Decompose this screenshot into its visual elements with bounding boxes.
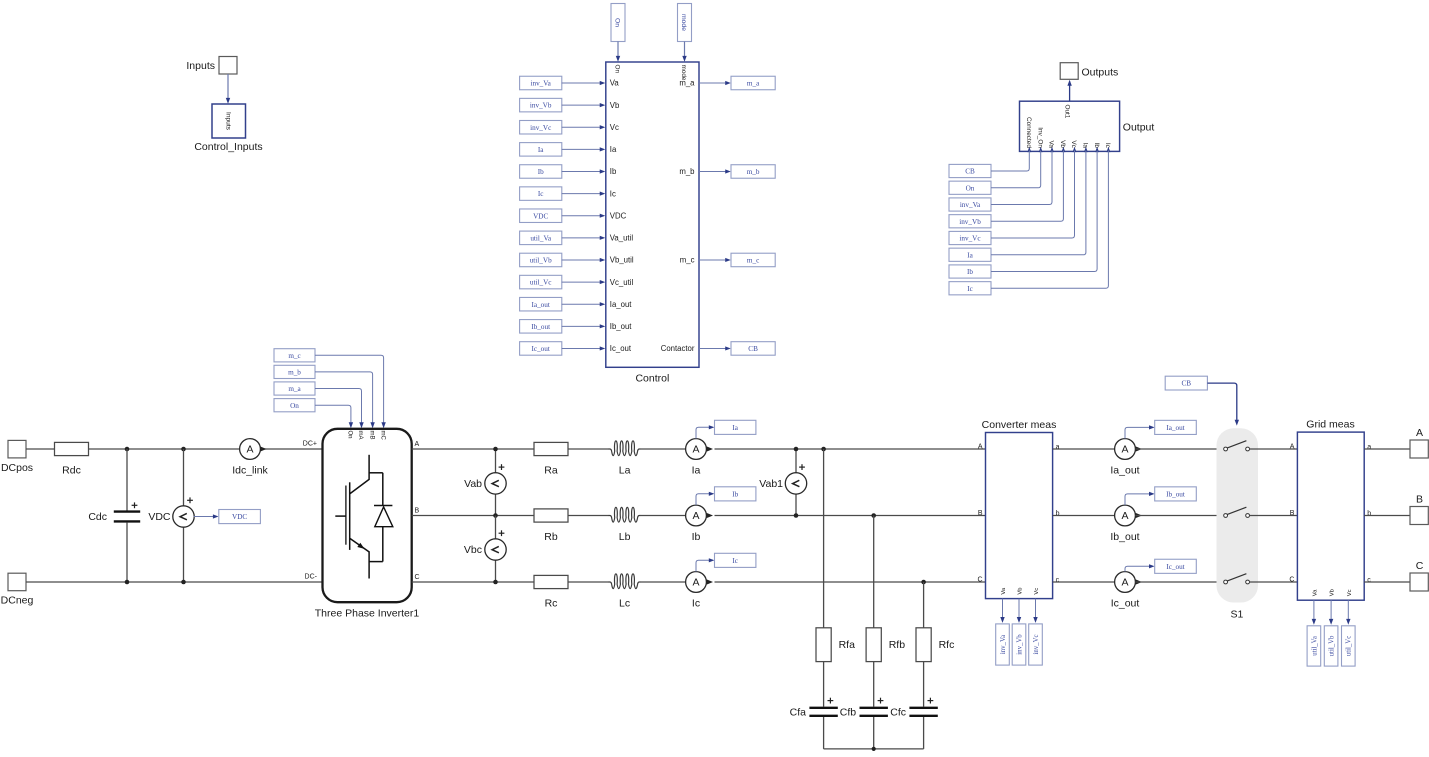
svg-text:VDC: VDC: [232, 513, 247, 521]
svg-text:m_a: m_a: [747, 80, 760, 88]
label B port inverter: [415, 507, 420, 514]
tag On into Output: [949, 150, 1041, 194]
tag m_c into inverter: [274, 349, 386, 429]
svg-text:b: b: [1367, 511, 1371, 518]
svg-text:Ic_out: Ic_out: [1111, 598, 1140, 610]
tag Ib into Control: [520, 165, 606, 179]
wire rail A inverter to Converter meas: [412, 448, 986, 450]
svg-text:A: A: [415, 441, 420, 448]
svg-text:Ia_out: Ia_out: [1110, 465, 1139, 477]
label DC-: [305, 574, 318, 581]
tag util_Vb from Grid meas: [1324, 600, 1338, 666]
junction filter neutral: [872, 747, 876, 751]
tag Ic_out measurement: [1125, 559, 1196, 573]
svg-text:Three Phase Inverter1: Three Phase Inverter1: [315, 608, 420, 620]
svg-text:On: On: [614, 65, 621, 74]
resistor Ra: [534, 442, 568, 476]
wire Grid meas to port A: [1364, 448, 1410, 450]
svg-text:m_c: m_c: [680, 256, 695, 265]
subsystem Output: [1020, 101, 1155, 152]
svg-text:inv_Va: inv_Va: [531, 80, 552, 88]
svg-text:m_a: m_a: [679, 79, 695, 88]
svg-text:DCpos: DCpos: [1, 462, 33, 474]
wire Inputs to Control_Inputs: [226, 74, 230, 104]
breaker S1: [1217, 428, 1259, 620]
svg-text:VDC: VDC: [148, 511, 171, 523]
wire S1 to Grid meas C: [1250, 581, 1298, 583]
svg-text:Inputs: Inputs: [186, 60, 215, 72]
svg-text:inv_Vb: inv_Vb: [959, 218, 981, 226]
svg-text:A: A: [1290, 443, 1295, 450]
svg-text:Vb: Vb: [1059, 140, 1066, 148]
wire S1 to Grid meas A: [1250, 448, 1298, 450]
tag inv_Va into Output: [949, 150, 1052, 211]
svg-text:A: A: [692, 510, 699, 522]
wire Ia_out to S1: [1135, 448, 1223, 450]
svg-text:Connected: Connected: [1025, 117, 1032, 148]
svg-text:B: B: [1290, 510, 1295, 517]
tag Ic into Output: [949, 150, 1108, 294]
junction VDC bottom: [181, 580, 186, 585]
svg-text:m_b: m_b: [288, 369, 301, 377]
svg-text:inv_Vc: inv_Vc: [530, 124, 551, 132]
tag inv_Vc from Converter meas: [1029, 599, 1043, 666]
svg-text:Vbc: Vbc: [464, 544, 482, 556]
svg-text:Rdc: Rdc: [62, 465, 81, 477]
switch pole A: [1224, 441, 1250, 451]
svg-text:Idc_link: Idc_link: [232, 465, 268, 477]
svg-text:inv_Vb: inv_Vb: [1016, 634, 1023, 655]
svg-text:Ic: Ic: [967, 285, 973, 293]
svg-text:Ib: Ib: [967, 268, 973, 276]
svg-text:c: c: [1367, 577, 1371, 584]
ammeter Ib: [686, 505, 713, 543]
svg-text:Ia: Ia: [1082, 143, 1089, 149]
svg-text:Rb: Rb: [544, 531, 558, 543]
tag Ia measurement: [696, 420, 756, 438]
svg-text:Ra: Ra: [544, 465, 558, 477]
tag Ic measurement: [696, 553, 756, 571]
svg-text:Va: Va: [610, 79, 620, 88]
junction VDC top: [181, 447, 186, 452]
svg-text:util_Vc: util_Vc: [1346, 636, 1353, 656]
resistor Rdc: [55, 442, 89, 476]
label C port inverter: [415, 574, 420, 581]
svg-text:Rfc: Rfc: [939, 639, 955, 651]
svg-text:CB: CB: [965, 168, 975, 176]
svg-text:m_b: m_b: [747, 168, 760, 176]
svg-text:util_Va: util_Va: [1311, 636, 1318, 656]
svg-text:Ib_out: Ib_out: [1166, 491, 1185, 499]
svg-text:Ic: Ic: [692, 598, 700, 610]
svg-text:Ib_out: Ib_out: [531, 323, 550, 331]
tag CB into Output: [949, 150, 1029, 177]
voltmeter Vbc: [464, 516, 506, 585]
tag util_Vb into Control: [520, 253, 606, 267]
svg-text:DC+: DC+: [303, 441, 317, 448]
svg-text:Outputs: Outputs: [1082, 67, 1119, 79]
svg-text:Va: Va: [1001, 587, 1007, 594]
svg-text:Vc_util: Vc_util: [610, 278, 634, 287]
tag Ib measurement: [696, 487, 756, 505]
wire rail B: [412, 515, 986, 517]
svg-text:Cfa: Cfa: [790, 706, 807, 718]
capacitor Cfa: [790, 662, 838, 749]
ammeter Ia: [686, 439, 713, 477]
svg-text:Ic: Ic: [538, 190, 544, 198]
svg-text:b: b: [1056, 511, 1060, 518]
svg-text:Rfa: Rfa: [839, 639, 856, 651]
svg-text:Ib_out: Ib_out: [610, 322, 633, 331]
junction filter B: [871, 513, 876, 518]
svg-text:c: c: [1056, 577, 1060, 584]
tag util_Va into Control: [520, 231, 606, 245]
svg-text:Ia_out: Ia_out: [532, 301, 550, 309]
svg-text:A: A: [1416, 427, 1423, 439]
switch pole C: [1224, 574, 1250, 584]
tag inv_Vb into Output: [949, 150, 1063, 227]
svg-text:m_c: m_c: [747, 257, 759, 265]
svg-text:Ic_out: Ic_out: [610, 344, 632, 353]
tag Ic_out into Control: [520, 342, 606, 356]
svg-text:Vab1: Vab1: [759, 478, 783, 490]
wire DCneg to inverter DC-: [26, 581, 323, 583]
ammeter Ic: [686, 572, 713, 610]
port B: [1410, 494, 1428, 525]
svg-text:C: C: [977, 576, 982, 583]
resistor Rfb: [866, 516, 905, 662]
svg-text:Ia_out: Ia_out: [1166, 424, 1184, 432]
tag Ib_out measurement: [1125, 487, 1196, 505]
inductor Lb: [609, 507, 641, 543]
wire Ib_out to S1: [1135, 515, 1223, 517]
junction filter A: [821, 447, 826, 452]
svg-text:Va_util: Va_util: [610, 234, 634, 243]
resistor Rc: [534, 575, 568, 609]
svg-text:DCneg: DCneg: [1, 595, 34, 607]
svg-text:A: A: [1121, 577, 1128, 589]
wire On to Control: [616, 42, 620, 62]
svg-text:mode: mode: [680, 14, 687, 31]
svg-text:Vc: Vc: [610, 123, 619, 132]
wire DCpos to Rdc: [26, 448, 54, 450]
wire S1 to Grid meas B: [1250, 515, 1298, 517]
svg-text:Vb: Vb: [1330, 589, 1336, 596]
resistor Rb: [534, 509, 568, 543]
svg-text:C: C: [1289, 576, 1294, 583]
junction Cdc top: [125, 447, 130, 452]
svg-text:Ic_out: Ic_out: [1166, 563, 1184, 571]
tag m_a into inverter: [274, 382, 364, 428]
svg-text:Ia: Ia: [538, 146, 544, 154]
port DCpos: [1, 440, 33, 474]
svg-text:On: On: [614, 18, 621, 27]
svg-text:A: A: [246, 444, 253, 456]
voltmeter Vab1: [759, 447, 806, 518]
svg-text:Vc: Vc: [1034, 588, 1040, 595]
voltmeter VDC: [148, 449, 194, 582]
svg-text:Ib: Ib: [732, 490, 738, 498]
resistor Rfa: [816, 449, 855, 662]
svg-text:VDC: VDC: [533, 212, 548, 220]
svg-text:On: On: [347, 431, 353, 439]
svg-text:Vc: Vc: [1070, 140, 1077, 148]
tag On into inverter: [274, 399, 353, 429]
svg-text:Ib: Ib: [610, 167, 617, 176]
svg-text:Cfb: Cfb: [840, 706, 857, 718]
tag inv_Vc into Control: [520, 120, 606, 133]
svg-text:Output: Output: [1123, 122, 1155, 134]
tag VDC into Control: [520, 209, 606, 223]
tag Ia into Output: [949, 150, 1086, 261]
svg-text:Ib_out: Ib_out: [1110, 531, 1139, 543]
svg-text:Lc: Lc: [619, 598, 630, 610]
svg-text:Va: Va: [1313, 589, 1319, 596]
svg-text:DC-: DC-: [305, 574, 318, 581]
source block On: [611, 4, 625, 42]
svg-text:inv_Vc: inv_Vc: [959, 235, 980, 243]
svg-text:util_Vb: util_Vb: [530, 257, 552, 265]
svg-text:C: C: [415, 574, 420, 581]
tag Ia into Control: [520, 143, 606, 157]
svg-text:Ia_out: Ia_out: [610, 300, 633, 309]
subsystem Converter meas: [977, 419, 1059, 599]
svg-text:mB: mB: [368, 431, 374, 440]
svg-text:Ia: Ia: [732, 424, 738, 432]
tag util_Vc into Control: [520, 275, 606, 289]
wire Ic_out to S1: [1135, 581, 1223, 583]
wire Output to Outputs: [1067, 80, 1071, 101]
subsystem Control: [606, 62, 699, 385]
tag inv_Vb from Converter meas: [1012, 599, 1026, 666]
svg-text:Ib: Ib: [538, 168, 544, 176]
voltmeter Vab: [464, 447, 506, 518]
svg-text:B: B: [1416, 494, 1423, 506]
svg-text:Rfb: Rfb: [889, 639, 906, 651]
igbt symbol inside inverter: [335, 455, 393, 579]
svg-text:On: On: [290, 402, 299, 410]
tag Ib_out into Control: [520, 320, 606, 334]
svg-text:Vb: Vb: [1018, 588, 1024, 595]
svg-text:m_a: m_a: [288, 385, 301, 393]
wire Converter meas to Ic_out: [1053, 581, 1115, 583]
svg-text:Inputs: Inputs: [224, 112, 231, 131]
svg-text:Ia: Ia: [692, 465, 701, 477]
svg-text:Vb_util: Vb_util: [610, 256, 634, 265]
svg-text:Cfc: Cfc: [890, 706, 906, 718]
capacitor Cfc: [890, 662, 938, 749]
svg-text:Control: Control: [635, 373, 669, 385]
capacitor Cfb: [840, 662, 888, 749]
tag VDC measurement: [194, 510, 261, 524]
svg-text:A: A: [692, 444, 699, 456]
tag Ia_out measurement: [1125, 420, 1196, 438]
port C: [1410, 560, 1428, 591]
tag m_c out of Control: [699, 253, 775, 267]
inductor Lc: [609, 574, 641, 610]
svg-text:m_c: m_c: [288, 352, 300, 360]
wire Converter meas to Ib_out: [1053, 515, 1115, 517]
inductor La: [609, 441, 641, 477]
svg-text:inv_Vb: inv_Vb: [530, 102, 552, 110]
svg-text:Ic: Ic: [732, 557, 738, 565]
svg-text:Out1: Out1: [1064, 105, 1071, 119]
svg-text:Inv_On: Inv_On: [1036, 127, 1043, 148]
tag inv_Va from Converter meas: [996, 599, 1010, 666]
port DCneg: [1, 573, 34, 606]
svg-text:Ib: Ib: [1093, 143, 1100, 149]
wire mode to Control: [682, 42, 686, 62]
tag inv_Vb into Control: [520, 98, 606, 112]
svg-text:inv_Vc: inv_Vc: [1033, 634, 1040, 654]
junction Cdc bottom: [125, 580, 130, 585]
svg-text:Converter meas: Converter meas: [982, 419, 1057, 431]
inport square Inputs: [186, 57, 237, 75]
svg-text:C: C: [1416, 560, 1424, 572]
svg-text:inv_Va: inv_Va: [1000, 635, 1007, 654]
source block mode: [678, 4, 692, 42]
port A: [1410, 427, 1428, 458]
junction filter C: [921, 580, 926, 585]
switch pole B: [1224, 507, 1250, 517]
tag Ic into Control: [520, 187, 606, 201]
svg-text:Vb: Vb: [610, 101, 620, 110]
svg-text:Contactor: Contactor: [661, 344, 695, 353]
svg-text:a: a: [1056, 444, 1060, 451]
tag m_b into inverter: [274, 365, 375, 428]
tag util_Va from Grid meas: [1307, 600, 1321, 666]
svg-text:Rc: Rc: [545, 598, 558, 610]
svg-text:mA: mA: [357, 431, 363, 440]
svg-text:inv_Va: inv_Va: [960, 201, 981, 209]
resistor Rfc: [916, 582, 954, 662]
svg-text:mC: mC: [379, 431, 385, 441]
svg-text:Ib: Ib: [692, 531, 701, 543]
svg-text:A: A: [692, 577, 699, 589]
capacitor Cdc: [88, 449, 140, 582]
wire Rdc to inverter DC+: [89, 448, 323, 450]
svg-text:B: B: [415, 507, 420, 514]
tag CB into S1: [1165, 376, 1239, 425]
tag util_Vc from Grid meas: [1342, 600, 1356, 666]
subsystem Control_Inputs: [194, 104, 262, 153]
label A port inverter: [415, 441, 420, 448]
svg-text:VDC: VDC: [610, 211, 627, 220]
wire rail C: [412, 581, 986, 583]
tag m_a out of Control: [699, 76, 775, 90]
tag Ia_out into Control: [520, 297, 606, 311]
subsystem Grid meas: [1289, 419, 1371, 601]
svg-text:Vab: Vab: [464, 478, 482, 490]
tag CB out of Control: [699, 342, 775, 356]
svg-text:Ia: Ia: [967, 251, 973, 259]
svg-text:S1: S1: [1230, 609, 1243, 621]
svg-text:B: B: [978, 510, 983, 517]
svg-text:util_Vc: util_Vc: [530, 279, 552, 287]
svg-text:Ic: Ic: [1104, 143, 1111, 149]
tag Ib into Output: [949, 150, 1097, 278]
wire Grid meas to port B: [1364, 515, 1410, 517]
svg-text:Ia: Ia: [610, 145, 617, 154]
svg-text:CB: CB: [1182, 380, 1192, 388]
subsystem Three Phase Inverter1: [315, 429, 420, 620]
svg-text:Lb: Lb: [619, 531, 631, 543]
svg-text:Grid meas: Grid meas: [1306, 419, 1354, 431]
wire Grid meas to port C: [1364, 581, 1410, 583]
tag inv_Vc into Output: [949, 150, 1075, 244]
ammeter Idc_link: [232, 439, 268, 477]
svg-text:Cdc: Cdc: [88, 511, 107, 523]
ammeter Ia_out: [1110, 439, 1142, 477]
svg-text:util_Va: util_Va: [530, 234, 552, 242]
ammeter Ib_out: [1110, 505, 1142, 543]
svg-text:CB: CB: [748, 345, 758, 353]
label DC+: [303, 441, 317, 448]
svg-text:a: a: [1367, 444, 1371, 451]
svg-text:Va: Va: [1048, 141, 1055, 149]
svg-text:Ic: Ic: [610, 189, 616, 198]
svg-text:A: A: [1121, 444, 1128, 456]
wire filter neutral bus: [824, 748, 924, 750]
tag m_b out of Control: [699, 165, 775, 179]
wire Converter meas to Ia_out: [1053, 448, 1115, 450]
ammeter Ic_out: [1111, 572, 1142, 610]
outport square Outputs: [1060, 63, 1118, 80]
svg-text:Ic_out: Ic_out: [532, 345, 550, 353]
svg-text:On: On: [966, 184, 975, 192]
svg-text:A: A: [978, 443, 983, 450]
svg-text:util_Vb: util_Vb: [1329, 635, 1336, 656]
svg-text:Vc: Vc: [1347, 589, 1353, 596]
svg-text:Control_Inputs: Control_Inputs: [194, 141, 262, 153]
svg-text:La: La: [619, 465, 631, 477]
tag inv_Va into Control: [520, 76, 606, 90]
svg-text:m_b: m_b: [679, 167, 695, 176]
svg-text:A: A: [1121, 510, 1128, 522]
